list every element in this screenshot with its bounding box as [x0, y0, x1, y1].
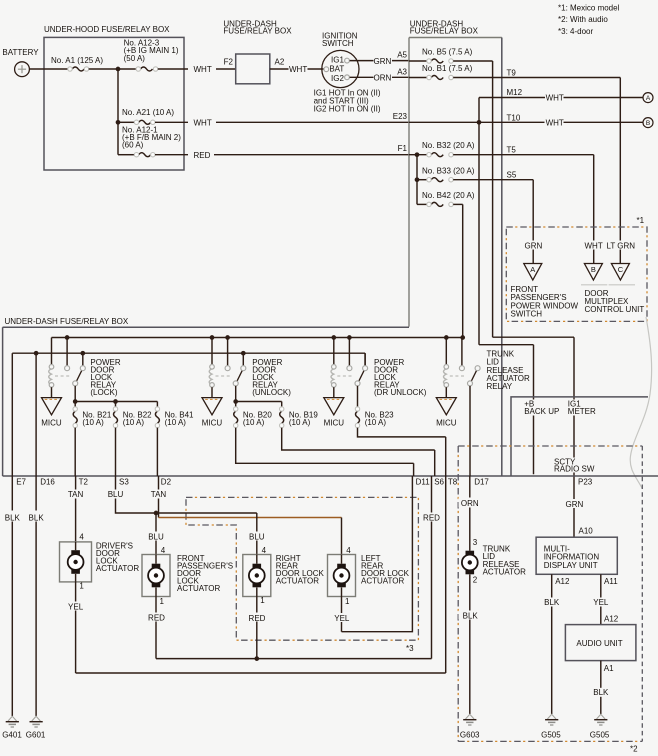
svg-text:T5: T5 — [507, 145, 517, 154]
svg-text:RED: RED — [194, 151, 211, 160]
svg-text:RED: RED — [249, 614, 266, 623]
svg-text:WHT: WHT — [546, 93, 564, 102]
svg-text:BLK: BLK — [5, 513, 21, 522]
svg-text:TAN: TAN — [68, 490, 84, 499]
svg-text:*1: *1 — [637, 216, 645, 225]
svg-text:FUSE/RELAY BOX: FUSE/RELAY BOX — [223, 26, 292, 35]
svg-text:BLK: BLK — [463, 611, 479, 620]
svg-text:MICU: MICU — [324, 419, 345, 428]
svg-text:1: 1 — [345, 597, 350, 606]
svg-text:BLK: BLK — [593, 688, 609, 697]
svg-text:BLU: BLU — [249, 532, 265, 541]
svg-text:E23: E23 — [393, 112, 408, 121]
svg-text:4: 4 — [262, 546, 267, 555]
svg-text:(10 A): (10 A) — [165, 418, 187, 427]
svg-text:1: 1 — [79, 582, 84, 591]
svg-text:(10 A): (10 A) — [289, 418, 311, 427]
svg-text:S5: S5 — [507, 171, 517, 180]
svg-text:(LOCK): (LOCK) — [90, 388, 117, 397]
svg-text:No. B33 (20 A): No. B33 (20 A) — [422, 166, 475, 175]
svg-text:No. A21 (10 A): No. A21 (10 A) — [122, 108, 174, 117]
svg-text:D16: D16 — [40, 478, 55, 487]
svg-text:GRN: GRN — [525, 241, 543, 250]
svg-text:(UNLOCK): (UNLOCK) — [252, 388, 291, 397]
svg-text:BLK: BLK — [29, 513, 45, 522]
svg-text:G505: G505 — [541, 730, 561, 739]
svg-text:4: 4 — [346, 546, 351, 555]
svg-text:WHT: WHT — [194, 118, 212, 127]
svg-text:BATTERY: BATTERY — [2, 48, 39, 57]
svg-text:No. B42 (20 A): No. B42 (20 A) — [422, 191, 475, 200]
svg-text:(10 A): (10 A) — [365, 418, 387, 427]
svg-text:C: C — [618, 265, 624, 274]
svg-text:WHT: WHT — [546, 118, 564, 127]
svg-text:No. A1 (125 A): No. A1 (125 A) — [51, 56, 103, 65]
svg-text:MICU: MICU — [202, 419, 223, 428]
svg-text:T8: T8 — [448, 478, 458, 487]
svg-text:WHT: WHT — [289, 65, 307, 74]
svg-text:A12: A12 — [555, 577, 570, 586]
svg-text:(10 A): (10 A) — [123, 418, 145, 427]
svg-text:(DR UNLOCK): (DR UNLOCK) — [374, 388, 427, 397]
svg-text:RELAY: RELAY — [487, 382, 513, 391]
svg-text:UNDER-DASH FUSE/RELAY BOX: UNDER-DASH FUSE/RELAY BOX — [5, 317, 129, 326]
svg-text:FUSE/RELAY BOX: FUSE/RELAY BOX — [410, 26, 479, 35]
svg-text:BAT: BAT — [329, 65, 344, 74]
svg-text:4: 4 — [161, 546, 166, 555]
svg-text:MICU: MICU — [436, 419, 457, 428]
svg-text:BACK UP: BACK UP — [524, 407, 559, 416]
svg-text:4: 4 — [79, 532, 84, 541]
svg-text:P23: P23 — [578, 478, 593, 487]
svg-text:M12: M12 — [507, 88, 523, 97]
svg-text:*1: Mexico model: *1: Mexico model — [558, 3, 620, 12]
svg-text:IG2 HOT In ON (II): IG2 HOT In ON (II) — [314, 105, 381, 114]
svg-text:F2: F2 — [224, 57, 234, 66]
svg-text:G601: G601 — [26, 730, 46, 739]
svg-text:ACTUATOR: ACTUATOR — [483, 568, 526, 577]
svg-text:A12: A12 — [604, 615, 619, 624]
svg-text:UNDER-HOOD FUSE/RELAY BOX: UNDER-HOOD FUSE/RELAY BOX — [44, 25, 170, 34]
svg-text:ACTUATOR: ACTUATOR — [276, 577, 319, 586]
svg-text:(10 A): (10 A) — [243, 418, 265, 427]
svg-text:ORN: ORN — [374, 74, 392, 83]
svg-text:F1: F1 — [398, 144, 408, 153]
svg-text:WHT: WHT — [584, 241, 602, 250]
svg-text:1: 1 — [260, 596, 265, 605]
svg-text:BLU: BLU — [108, 490, 124, 499]
svg-text:D11: D11 — [416, 478, 431, 487]
svg-text:(60 A): (60 A) — [122, 140, 144, 149]
svg-text:G603: G603 — [460, 730, 480, 739]
svg-text:G401: G401 — [2, 730, 22, 739]
svg-text:ACTUATOR: ACTUATOR — [361, 577, 404, 586]
svg-text:A: A — [530, 265, 535, 274]
svg-text:S3: S3 — [119, 478, 129, 487]
svg-text:1: 1 — [160, 597, 165, 606]
svg-text:METER: METER — [568, 407, 596, 416]
svg-text:AUDIO UNIT: AUDIO UNIT — [576, 639, 622, 648]
svg-text:*2: *2 — [630, 744, 638, 753]
svg-text:D17: D17 — [474, 478, 489, 487]
svg-text:ACTUATOR: ACTUATOR — [177, 584, 220, 593]
svg-text:YEL: YEL — [334, 614, 350, 623]
svg-text:ACTUATOR: ACTUATOR — [96, 564, 139, 573]
svg-text:LT GRN: LT GRN — [606, 241, 635, 250]
svg-text:YEL: YEL — [593, 598, 609, 607]
svg-text:BLU: BLU — [148, 532, 164, 541]
svg-text:A5: A5 — [397, 51, 407, 60]
svg-text:RED: RED — [148, 614, 165, 623]
svg-text:TAN: TAN — [151, 490, 167, 499]
svg-text:*3: 4-door: *3: 4-door — [558, 27, 593, 36]
svg-text:MICU: MICU — [41, 419, 62, 428]
svg-text:SWITCH: SWITCH — [511, 310, 543, 319]
svg-text:T10: T10 — [507, 113, 521, 122]
svg-text:No. B1 (7.5 A): No. B1 (7.5 A) — [422, 64, 473, 73]
svg-text:IG1: IG1 — [331, 55, 344, 64]
svg-text:*3: *3 — [406, 644, 414, 653]
svg-text:ORN: ORN — [461, 499, 479, 508]
svg-text:A1: A1 — [604, 664, 614, 673]
svg-text:G505: G505 — [590, 730, 610, 739]
svg-text:D2: D2 — [161, 478, 172, 487]
svg-text:BLK: BLK — [544, 598, 560, 607]
svg-text:(10 A): (10 A) — [82, 418, 104, 427]
svg-text:T2: T2 — [79, 478, 89, 487]
svg-text:*2: With audio: *2: With audio — [558, 15, 608, 24]
svg-text:3: 3 — [473, 538, 478, 547]
svg-text:A11: A11 — [604, 577, 618, 586]
svg-text:GRN: GRN — [374, 57, 392, 66]
svg-text:A10: A10 — [579, 527, 594, 536]
svg-text:RADIO SW: RADIO SW — [554, 465, 595, 474]
svg-text:IG2: IG2 — [331, 74, 344, 83]
svg-text:A3: A3 — [397, 68, 407, 77]
svg-text:A2: A2 — [275, 57, 285, 66]
svg-text:(50 A): (50 A) — [124, 54, 146, 63]
svg-text:A: A — [646, 95, 651, 102]
svg-text:B: B — [646, 120, 650, 127]
svg-text:E7: E7 — [16, 478, 26, 487]
svg-text:DISPLAY UNIT: DISPLAY UNIT — [544, 561, 598, 570]
svg-text:B: B — [591, 265, 596, 274]
svg-text:GRN: GRN — [566, 500, 584, 509]
svg-text:T9: T9 — [507, 68, 517, 77]
svg-text:YEL: YEL — [68, 603, 84, 612]
svg-text:No. B32 (20 A): No. B32 (20 A) — [422, 141, 475, 150]
svg-text:No. B5 (7.5 A): No. B5 (7.5 A) — [422, 48, 473, 57]
svg-text:RED: RED — [423, 513, 440, 522]
svg-text:CONTROL UNIT: CONTROL UNIT — [585, 305, 645, 314]
svg-text:SWITCH: SWITCH — [322, 39, 354, 48]
svg-text:WHT: WHT — [194, 65, 212, 74]
svg-text:2: 2 — [473, 576, 478, 585]
svg-text:S6: S6 — [434, 478, 444, 487]
